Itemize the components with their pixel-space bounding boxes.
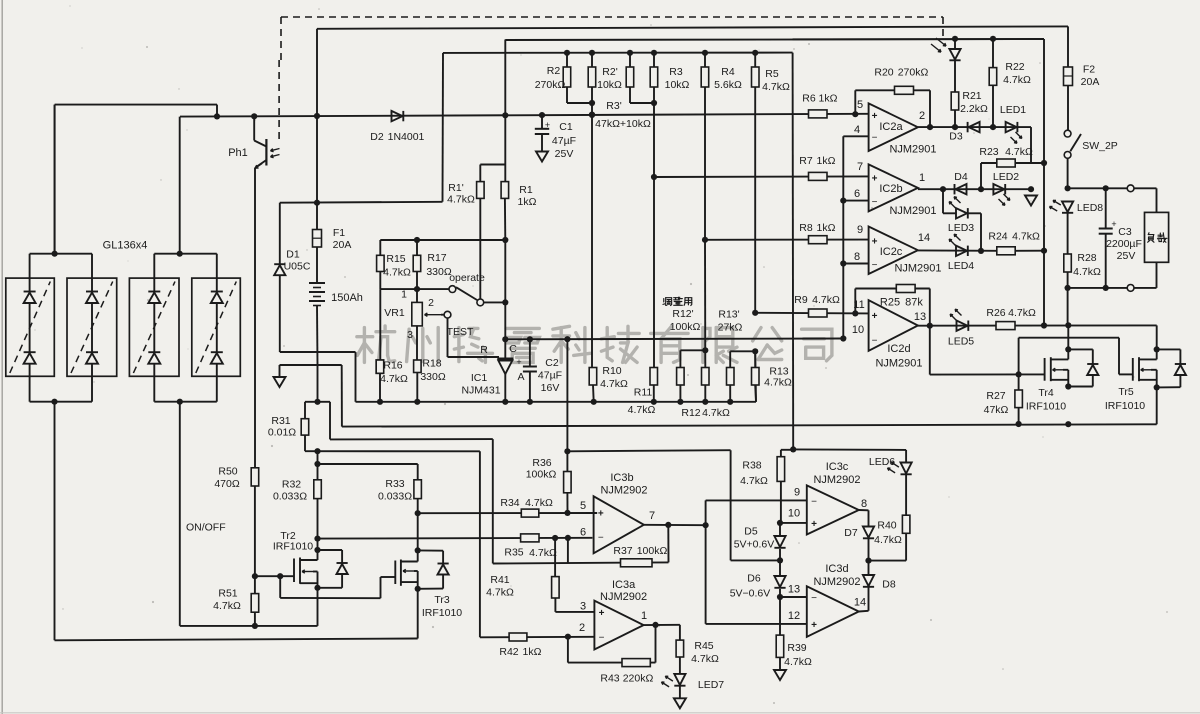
- svg-text:14: 14: [854, 597, 866, 609]
- svg-text:R27: R27: [986, 390, 1005, 402]
- svg-text:+: +: [811, 519, 817, 530]
- svg-text:6: 6: [854, 188, 860, 200]
- svg-text:D6: D6: [747, 573, 761, 585]
- svg-text:C3: C3: [1118, 226, 1132, 238]
- svg-text:5: 5: [857, 99, 863, 111]
- svg-text:R7: R7: [799, 155, 813, 167]
- svg-text:C: C: [509, 343, 517, 355]
- svg-text:4.7kΩ: 4.7kΩ: [1073, 266, 1101, 278]
- svg-text:27kΩ: 27kΩ: [718, 322, 743, 334]
- svg-text:4: 4: [854, 124, 860, 136]
- svg-text:R24: R24: [988, 231, 1007, 243]
- svg-text:0.033Ω: 0.033Ω: [378, 491, 412, 503]
- svg-text:IRF1010: IRF1010: [1105, 400, 1145, 412]
- svg-text:R20: R20: [874, 67, 893, 79]
- svg-text:R4: R4: [721, 66, 735, 78]
- svg-text:R16: R16: [383, 360, 402, 372]
- svg-text:10: 10: [852, 324, 864, 336]
- svg-text:LED2: LED2: [993, 171, 1019, 183]
- svg-text:4.7kΩ: 4.7kΩ: [764, 377, 792, 389]
- svg-text:NJM2901: NJM2901: [889, 144, 936, 156]
- svg-text:R45: R45: [694, 640, 713, 652]
- svg-text:−: −: [598, 533, 604, 544]
- svg-text:IC3b: IC3b: [610, 472, 633, 484]
- svg-text:LED1: LED1: [1000, 104, 1026, 116]
- svg-text:R2: R2: [547, 65, 561, 77]
- svg-text:R17: R17: [427, 252, 446, 264]
- svg-text:4.7kΩ: 4.7kΩ: [702, 407, 730, 419]
- svg-text:+: +: [872, 173, 878, 184]
- svg-text:R12: R12: [681, 407, 700, 419]
- svg-text:8: 8: [854, 251, 860, 263]
- svg-text:R3: R3: [669, 66, 683, 78]
- svg-text:D1: D1: [286, 249, 300, 261]
- svg-text:1kΩ: 1kΩ: [518, 196, 537, 208]
- svg-text:D8: D8: [882, 579, 896, 591]
- svg-text:9: 9: [857, 224, 863, 236]
- svg-text:+: +: [545, 120, 550, 130]
- svg-text:D2: D2: [370, 131, 384, 143]
- svg-text:R11: R11: [634, 387, 653, 399]
- svg-text:+: +: [516, 357, 521, 367]
- svg-text:47kΩ+10kΩ: 47kΩ+10kΩ: [595, 118, 651, 130]
- svg-text:D3: D3: [949, 131, 963, 143]
- svg-text:4.7kΩ: 4.7kΩ: [740, 475, 768, 487]
- svg-text:20A: 20A: [1081, 76, 1100, 88]
- svg-text:5: 5: [580, 500, 586, 512]
- svg-text:Tr3: Tr3: [434, 594, 450, 606]
- svg-text:R5: R5: [765, 68, 779, 80]
- svg-text:+: +: [872, 111, 878, 122]
- svg-text:1N4001: 1N4001: [388, 131, 425, 143]
- svg-text:R35: R35: [504, 547, 523, 559]
- svg-text:25V: 25V: [555, 148, 574, 160]
- svg-text:Tr4: Tr4: [1038, 387, 1054, 399]
- svg-text:R13': R13': [718, 309, 739, 321]
- svg-text:F2: F2: [1083, 64, 1095, 76]
- svg-text:R40: R40: [877, 520, 896, 532]
- svg-text:IRF1010: IRF1010: [273, 541, 313, 553]
- svg-text:4.7kΩ: 4.7kΩ: [1008, 307, 1036, 319]
- svg-text:NJM431: NJM431: [461, 385, 500, 397]
- svg-text:R21: R21: [962, 90, 981, 102]
- svg-text:R: R: [480, 344, 488, 356]
- svg-text:4.7kΩ: 4.7kΩ: [380, 373, 408, 385]
- svg-text:R34: R34: [500, 497, 519, 509]
- svg-text:R41: R41: [490, 574, 509, 586]
- svg-text:2: 2: [428, 297, 434, 309]
- svg-text:R43: R43: [600, 673, 619, 685]
- svg-text:1kΩ: 1kΩ: [817, 155, 836, 167]
- svg-text:Tr5: Tr5: [1118, 386, 1134, 398]
- svg-text:10kΩ: 10kΩ: [597, 79, 622, 91]
- svg-text:47µF: 47µF: [552, 135, 576, 147]
- svg-text:NJM2902: NJM2902: [600, 591, 647, 603]
- svg-text:R51: R51: [218, 588, 237, 600]
- svg-text:R10: R10: [602, 365, 621, 377]
- svg-text:4.7kΩ: 4.7kΩ: [812, 294, 840, 306]
- svg-text:2: 2: [919, 110, 925, 122]
- svg-text:LED8: LED8: [1077, 202, 1103, 214]
- svg-text:NJM2901: NJM2901: [889, 205, 936, 217]
- svg-text:−: −: [872, 133, 878, 144]
- svg-text:4.7kΩ: 4.7kΩ: [383, 267, 411, 279]
- svg-text:4.7kΩ: 4.7kΩ: [525, 497, 553, 509]
- svg-text:4.7kΩ: 4.7kΩ: [1012, 231, 1040, 243]
- svg-text:5.6kΩ: 5.6kΩ: [714, 79, 742, 91]
- svg-text:R33: R33: [385, 478, 404, 490]
- svg-text:10: 10: [788, 508, 800, 520]
- svg-text:C1: C1: [559, 121, 573, 133]
- svg-text:16V: 16V: [541, 382, 560, 394]
- svg-text:270kΩ: 270kΩ: [535, 79, 566, 91]
- svg-text:270kΩ: 270kΩ: [898, 67, 929, 79]
- svg-text:ON/OFF: ON/OFF: [186, 522, 226, 534]
- svg-text:R12': R12': [672, 308, 693, 320]
- svg-text:D5: D5: [744, 526, 758, 538]
- svg-text:R8: R8: [799, 222, 813, 234]
- svg-text:IC2c: IC2c: [880, 246, 903, 258]
- svg-text:470Ω: 470Ω: [214, 478, 240, 490]
- svg-text:R22: R22: [1005, 61, 1024, 73]
- svg-text:2: 2: [579, 622, 585, 634]
- svg-text:10kΩ: 10kΩ: [665, 79, 690, 91]
- svg-text:IC3a: IC3a: [612, 579, 636, 591]
- svg-text:R32: R32: [282, 479, 301, 491]
- svg-text:−: −: [811, 593, 817, 604]
- svg-text:IC2a: IC2a: [879, 121, 903, 133]
- svg-text:4.7kΩ: 4.7kΩ: [529, 547, 557, 559]
- svg-text:−: −: [872, 336, 878, 347]
- svg-text:R26: R26: [986, 307, 1005, 319]
- svg-text:9: 9: [794, 487, 800, 499]
- svg-text:TEST: TEST: [447, 326, 474, 338]
- svg-text:LED7: LED7: [698, 679, 724, 691]
- svg-text:R28: R28: [1077, 252, 1096, 264]
- svg-text:+: +: [811, 620, 817, 631]
- svg-text:4.7kΩ: 4.7kΩ: [762, 81, 790, 93]
- svg-text:1: 1: [401, 289, 407, 301]
- svg-text:VR1: VR1: [384, 307, 405, 319]
- svg-text:R23: R23: [979, 146, 998, 158]
- svg-text:5V−0.6V: 5V−0.6V: [730, 588, 771, 600]
- svg-text:R31: R31: [271, 415, 290, 427]
- svg-text:NJM2902: NJM2902: [600, 485, 647, 497]
- svg-text:NJM2901: NJM2901: [894, 263, 941, 275]
- svg-text:R50: R50: [218, 466, 237, 478]
- svg-text:14: 14: [918, 232, 930, 244]
- svg-text:+: +: [599, 608, 605, 619]
- svg-text:−: −: [599, 632, 605, 643]
- svg-text:220kΩ: 220kΩ: [623, 673, 654, 685]
- svg-text:R15: R15: [386, 253, 405, 265]
- svg-text:25V: 25V: [1117, 250, 1136, 262]
- svg-text:NJM2902: NJM2902: [813, 474, 860, 486]
- svg-text:LED5: LED5: [948, 336, 974, 348]
- svg-text:7: 7: [857, 161, 863, 173]
- svg-text:IRF1010: IRF1010: [422, 607, 462, 619]
- svg-text:13: 13: [914, 311, 926, 323]
- svg-text:−: −: [811, 496, 817, 507]
- svg-text:20A: 20A: [333, 239, 352, 251]
- svg-text:SW_2P: SW_2P: [1082, 140, 1118, 152]
- svg-text:IC2d: IC2d: [887, 343, 910, 355]
- svg-text:R25: R25: [880, 297, 900, 309]
- svg-text:NJM2902: NJM2902: [813, 576, 860, 588]
- svg-text:5V+0.6V: 5V+0.6V: [734, 539, 775, 551]
- svg-text:IC2b: IC2b: [879, 183, 902, 195]
- svg-text:R42: R42: [499, 646, 518, 658]
- svg-text:2200µF: 2200µF: [1106, 238, 1142, 250]
- svg-text:150Ah: 150Ah: [331, 292, 363, 304]
- svg-text:4.7kΩ: 4.7kΩ: [1005, 146, 1033, 158]
- svg-text:4.7kΩ: 4.7kΩ: [600, 378, 628, 390]
- svg-text:D4: D4: [954, 171, 968, 183]
- svg-text:R37: R37: [613, 545, 632, 557]
- svg-text:4.7kΩ: 4.7kΩ: [447, 194, 475, 206]
- svg-text:4.7kΩ: 4.7kΩ: [874, 534, 902, 546]
- svg-text:47kΩ: 47kΩ: [984, 404, 1009, 416]
- svg-text:R18: R18: [422, 358, 441, 370]
- svg-text:IC3c: IC3c: [826, 461, 849, 473]
- svg-text:C2: C2: [545, 357, 559, 369]
- svg-text:8: 8: [861, 498, 867, 510]
- svg-text:R2': R2': [602, 66, 617, 78]
- svg-text:4.7kΩ: 4.7kΩ: [1003, 74, 1031, 86]
- svg-text:NJM2901: NJM2901: [875, 358, 922, 370]
- svg-text:LED3: LED3: [948, 222, 974, 234]
- svg-text:7: 7: [649, 510, 655, 522]
- svg-text:A: A: [517, 371, 524, 383]
- svg-text:+: +: [872, 236, 878, 247]
- svg-text:4.7kΩ: 4.7kΩ: [213, 600, 241, 612]
- svg-text:R1': R1': [448, 182, 463, 194]
- svg-text:R36: R36: [532, 457, 551, 469]
- svg-text:100kΩ: 100kΩ: [637, 545, 668, 557]
- svg-text:R3': R3': [606, 100, 621, 112]
- svg-text:R39: R39: [787, 642, 806, 654]
- svg-text:6: 6: [580, 527, 586, 539]
- svg-text:IC3d: IC3d: [825, 563, 848, 575]
- svg-text:87k: 87k: [905, 297, 923, 309]
- svg-text:U05C: U05C: [284, 261, 311, 273]
- svg-text:R38: R38: [742, 460, 761, 472]
- svg-text:+: +: [872, 311, 878, 322]
- svg-text:4.7kΩ: 4.7kΩ: [628, 404, 656, 416]
- svg-text:1kΩ: 1kΩ: [817, 222, 836, 234]
- svg-text:D7: D7: [844, 527, 858, 539]
- svg-text:1: 1: [641, 610, 647, 622]
- svg-text:LED4: LED4: [948, 260, 974, 272]
- svg-text:0.01Ω: 0.01Ω: [268, 427, 296, 439]
- svg-text:4.7kΩ: 4.7kΩ: [784, 656, 812, 668]
- svg-text:R9: R9: [794, 294, 808, 306]
- svg-text:13: 13: [788, 584, 800, 596]
- svg-text:3: 3: [407, 329, 413, 341]
- svg-text:IC1: IC1: [471, 372, 488, 384]
- svg-text:100kΩ: 100kΩ: [670, 321, 701, 333]
- svg-text:12: 12: [788, 610, 800, 622]
- svg-text:2.2kΩ: 2.2kΩ: [960, 103, 988, 115]
- svg-text:R1: R1: [519, 184, 533, 196]
- svg-text:GL136x4: GL136x4: [103, 240, 148, 252]
- svg-text:1: 1: [919, 172, 925, 184]
- svg-text:47µF: 47µF: [538, 370, 562, 382]
- svg-text:0.033Ω: 0.033Ω: [273, 491, 307, 503]
- svg-text:IRF1010: IRF1010: [1026, 401, 1066, 413]
- svg-text:4.7kΩ: 4.7kΩ: [691, 653, 719, 665]
- svg-text:F1: F1: [333, 227, 345, 239]
- svg-text:+: +: [1111, 219, 1116, 229]
- svg-text:R6: R6: [802, 93, 816, 105]
- svg-text:330Ω: 330Ω: [420, 371, 446, 383]
- svg-text:1kΩ: 1kΩ: [523, 646, 542, 658]
- svg-text:4.7kΩ: 4.7kΩ: [486, 587, 514, 599]
- svg-text:−: −: [872, 260, 878, 271]
- svg-text:+: +: [598, 509, 604, 520]
- svg-text:Ph1: Ph1: [228, 147, 248, 159]
- svg-text:operate: operate: [449, 272, 485, 284]
- svg-text:330Ω: 330Ω: [426, 266, 452, 278]
- svg-text:−: −: [872, 197, 878, 208]
- svg-text:100kΩ: 100kΩ: [526, 469, 557, 481]
- svg-text:3: 3: [580, 601, 586, 613]
- svg-text:1kΩ: 1kΩ: [819, 93, 838, 105]
